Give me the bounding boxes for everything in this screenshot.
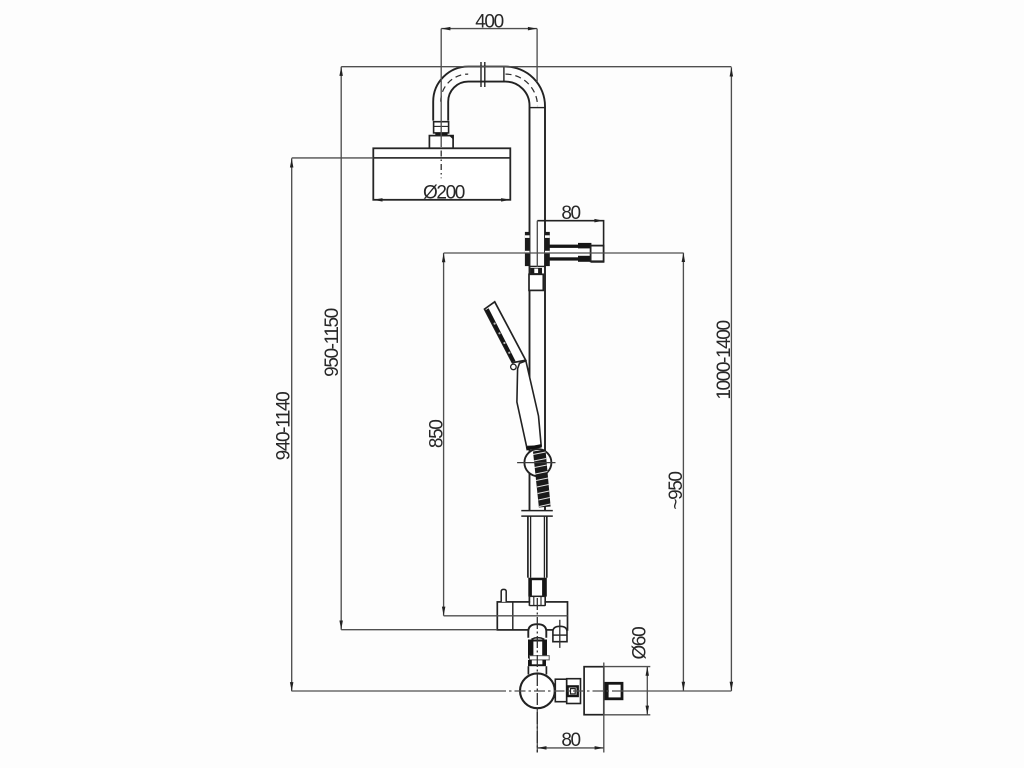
temperature handle (front circle) [520,673,555,708]
swivel ball under body [528,624,546,638]
hand shower handle [517,361,541,447]
arrow 950-1150 bottom [339,621,343,630]
wire: bracket centerline reference [444,252,684,254]
centerline of mixer column (dash-dot) [536,598,538,753]
svg-text:850: 850 [427,420,448,448]
arrow 80 bottom left [537,746,546,750]
svg-text:Ø200: Ø200 [423,183,465,204]
wire: pipe joint line on right leg [530,107,546,109]
connector nut above shower head [434,122,449,133]
wire: main bottom centerline [292,690,495,692]
handle neck A [555,679,566,702]
arrow Ø60 bottom [646,706,650,715]
flow handle (side view, Ø60) [584,667,604,715]
dimension line 850 [443,253,445,616]
wire: mixer mid reference line [444,615,568,617]
arrow 1000-1400 top [730,67,734,76]
svg-text:1000-1400: 1000-1400 [714,321,735,400]
extension line 400 right [536,29,538,82]
arrow 940-1140 top [290,158,294,167]
arrow 940-1140 bottom [290,682,294,691]
svg-text:400: 400 [475,11,503,32]
mixer inlet stub [501,589,506,602]
thin reference and dimension lines [292,29,732,753]
arrow 950-1150 top [339,67,343,76]
wire: top reference line [341,66,731,68]
shower head flange [429,136,453,149]
dimension 80 bottom line [537,747,604,749]
neck to handle [527,666,529,674]
slider holder circle [524,449,551,476]
flow handle knob [606,683,622,699]
bracket arm [545,245,591,261]
svg-text:80: 80 [561,730,580,751]
arrow ~950 top [682,253,686,262]
hand shower head [485,302,526,363]
shower head (Ø200) [373,148,510,200]
crosshair of slider circle [517,462,555,464]
handle end cap [526,446,541,449]
dimension line ~950 [682,253,684,691]
coupling nut [529,596,545,605]
lower column with hose [528,516,547,578]
small square on neck [568,686,578,696]
svg-text:940-1140: 940-1140 [273,392,294,461]
arrow 400 left [441,27,450,31]
arrow 1000-1400 bottom [730,682,734,691]
wire: riser pipe left leg [433,67,545,511]
arrow 850 bottom [442,607,446,616]
wire: head face reference line [292,157,511,159]
arrow Ø60 top [646,667,650,676]
hose coupling (dark) [528,578,547,597]
svg-text:Ø60: Ø60 [629,627,650,660]
arrow 400 right [528,27,537,31]
extension lines 80 bottom [536,710,538,753]
wall bracket (80) [537,221,603,262]
wire: dashed centerline arcs of bends [441,74,469,102]
wire: mixer top-left reference line [341,629,497,631]
mixer body [497,602,567,630]
svg-text:80: 80 [561,203,580,224]
shower hose upper (hatched) [533,450,551,508]
dimension 400 line [441,28,537,30]
arrow 80 top right [594,219,603,223]
head inner face line [373,157,510,159]
arrow Ø200 right [501,198,510,202]
extension line 400 left [440,29,442,147]
slide bar upper stop [530,265,546,267]
centerline of shower head (dash-dot) [440,151,442,179]
dimension Ø60 line [646,667,648,715]
extension line 80 top [536,221,538,267]
bracket end cap [591,246,604,262]
arrow ~950 bottom [682,682,686,691]
arrow 80 bottom right [595,746,604,750]
extension lines Ø60 [604,666,650,668]
arrow Ø200 left [373,198,382,202]
check valve right of ball [553,626,567,641]
slide bar bottom stop [521,510,553,512]
Ø200 dimension line (head bottom) with arrows [290,27,733,750]
threaded fitting [531,638,544,640]
arrow 850 top [442,253,446,262]
dimension line 950-1150 [340,67,342,630]
svg-text:~950: ~950 [666,472,687,510]
svg-text:950-1150: 950-1150 [322,308,343,377]
nut overlap on body top [530,597,544,605]
wire: pipe break marks [480,62,482,87]
dimension line 940-1140 [291,158,293,691]
wire: pipe joint line on top run [503,67,505,82]
handle neck B [567,679,581,704]
dimension line 1000-1400 [730,67,732,691]
hand shower spray face [485,308,515,362]
bracket clamp bands on pipe [525,232,530,266]
hand shower pivot [511,364,517,370]
